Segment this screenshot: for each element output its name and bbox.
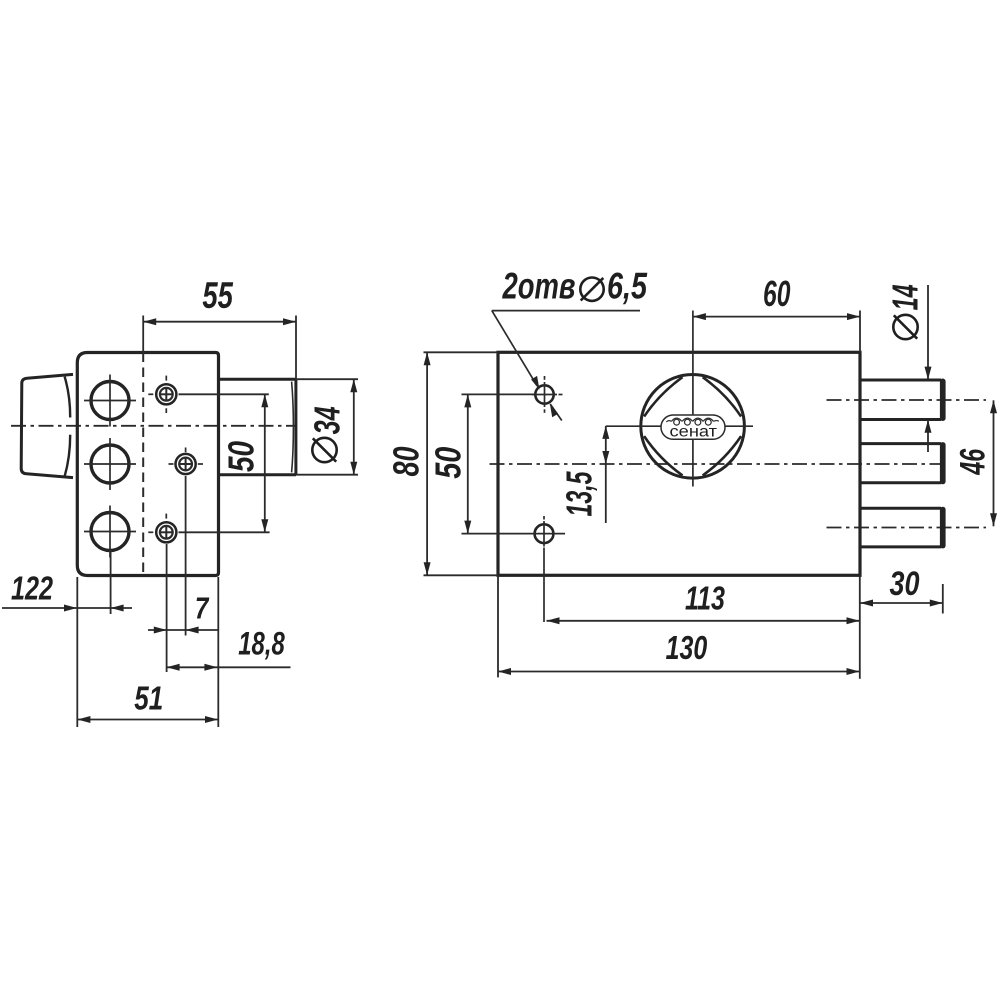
dimension 60 (693, 316, 860, 318)
knob outline (21, 374, 73, 477)
main centerline right view (490, 463, 950, 465)
bolt circle 2 (91, 445, 129, 483)
top bolt (860, 379, 941, 382)
60 left extension through rosette (692, 311, 694, 487)
svg-text:6,5: 6,5 (607, 265, 648, 306)
svg-text:122: 122 (11, 570, 53, 607)
extension line body left edge (76, 577, 78, 727)
svg-text:2отв: 2отв (502, 265, 576, 306)
dimension 130 (498, 671, 860, 673)
svg-text:50: 50 (428, 447, 469, 479)
svg-text:60: 60 (763, 273, 790, 314)
svg-text:51: 51 (134, 680, 163, 717)
bolt circle 3 (91, 513, 129, 551)
svg-text:80: 80 (386, 447, 427, 477)
dimension dia34 (296, 378, 358, 380)
top bolt centerline (827, 399, 987, 401)
rosette (641, 375, 745, 479)
centerline left view (11, 425, 296, 427)
knob flange lower (65, 435, 71, 477)
svg-text:55: 55 (202, 275, 234, 316)
svg-text:14: 14 (885, 284, 926, 310)
extension line screw column outer (166, 544, 168, 672)
screw top-left view (156, 384, 176, 404)
dimension 113 (547, 620, 861, 622)
svg-text:130: 130 (666, 629, 708, 666)
svg-text:сенат: сенат (670, 423, 718, 440)
dimension 80 (426, 352, 428, 575)
dimension dia14 (927, 285, 929, 379)
svg-text:7: 7 (195, 591, 210, 626)
body rect right view (498, 352, 860, 575)
top edge extension (424, 351, 499, 353)
dimension 55 (142, 316, 144, 353)
dimension 46 (993, 400, 995, 526)
label 2otv dia 6,5 (502, 265, 648, 306)
screw bottom-left view (156, 522, 176, 542)
svg-text:113: 113 (685, 580, 725, 617)
screw middle-left view (176, 454, 196, 474)
center bolt (860, 442, 941, 445)
13,5 leader through rosette (606, 425, 753, 427)
extension line body right edge (217, 577, 219, 727)
dimension 18,8 (167, 666, 291, 668)
dimension 50 right (467, 394, 469, 533)
svg-text:30: 30 (890, 565, 920, 603)
svg-text:18,8: 18,8 (238, 626, 285, 662)
bottom edge extension (424, 574, 499, 576)
leader 2otv (492, 310, 640, 312)
extension line right body right edge (859, 575, 861, 678)
senat badge (661, 415, 725, 439)
lock body (left view) (77, 353, 218, 576)
svg-text:34: 34 (307, 406, 348, 434)
knob flange upper (65, 377, 71, 418)
screw hole top right view (535, 385, 553, 403)
dimension 30 (860, 602, 943, 604)
bottom bolt centerline (827, 527, 987, 529)
svg-text:13,5: 13,5 (559, 471, 600, 517)
bolt circle 1 (91, 382, 129, 420)
extension line screw column inner (185, 476, 187, 636)
dimension 50 left (179, 393, 269, 395)
dimension 7 (148, 629, 218, 631)
extension line bolt column (110, 549, 112, 614)
cylinder inner edge curve (292, 382, 294, 473)
dimension 122 (2, 607, 132, 609)
dimension 51 (77, 719, 218, 721)
screw hole bottom right view (535, 524, 554, 543)
cylinder (left view) (219, 378, 297, 381)
dimension 13,5 (605, 426, 607, 523)
extension line right body left edge (497, 575, 499, 677)
hidden dashed line (142, 353, 144, 576)
bottom bolt (860, 507, 941, 510)
svg-text:50: 50 (221, 441, 262, 472)
svg-text:46: 46 (954, 448, 993, 475)
